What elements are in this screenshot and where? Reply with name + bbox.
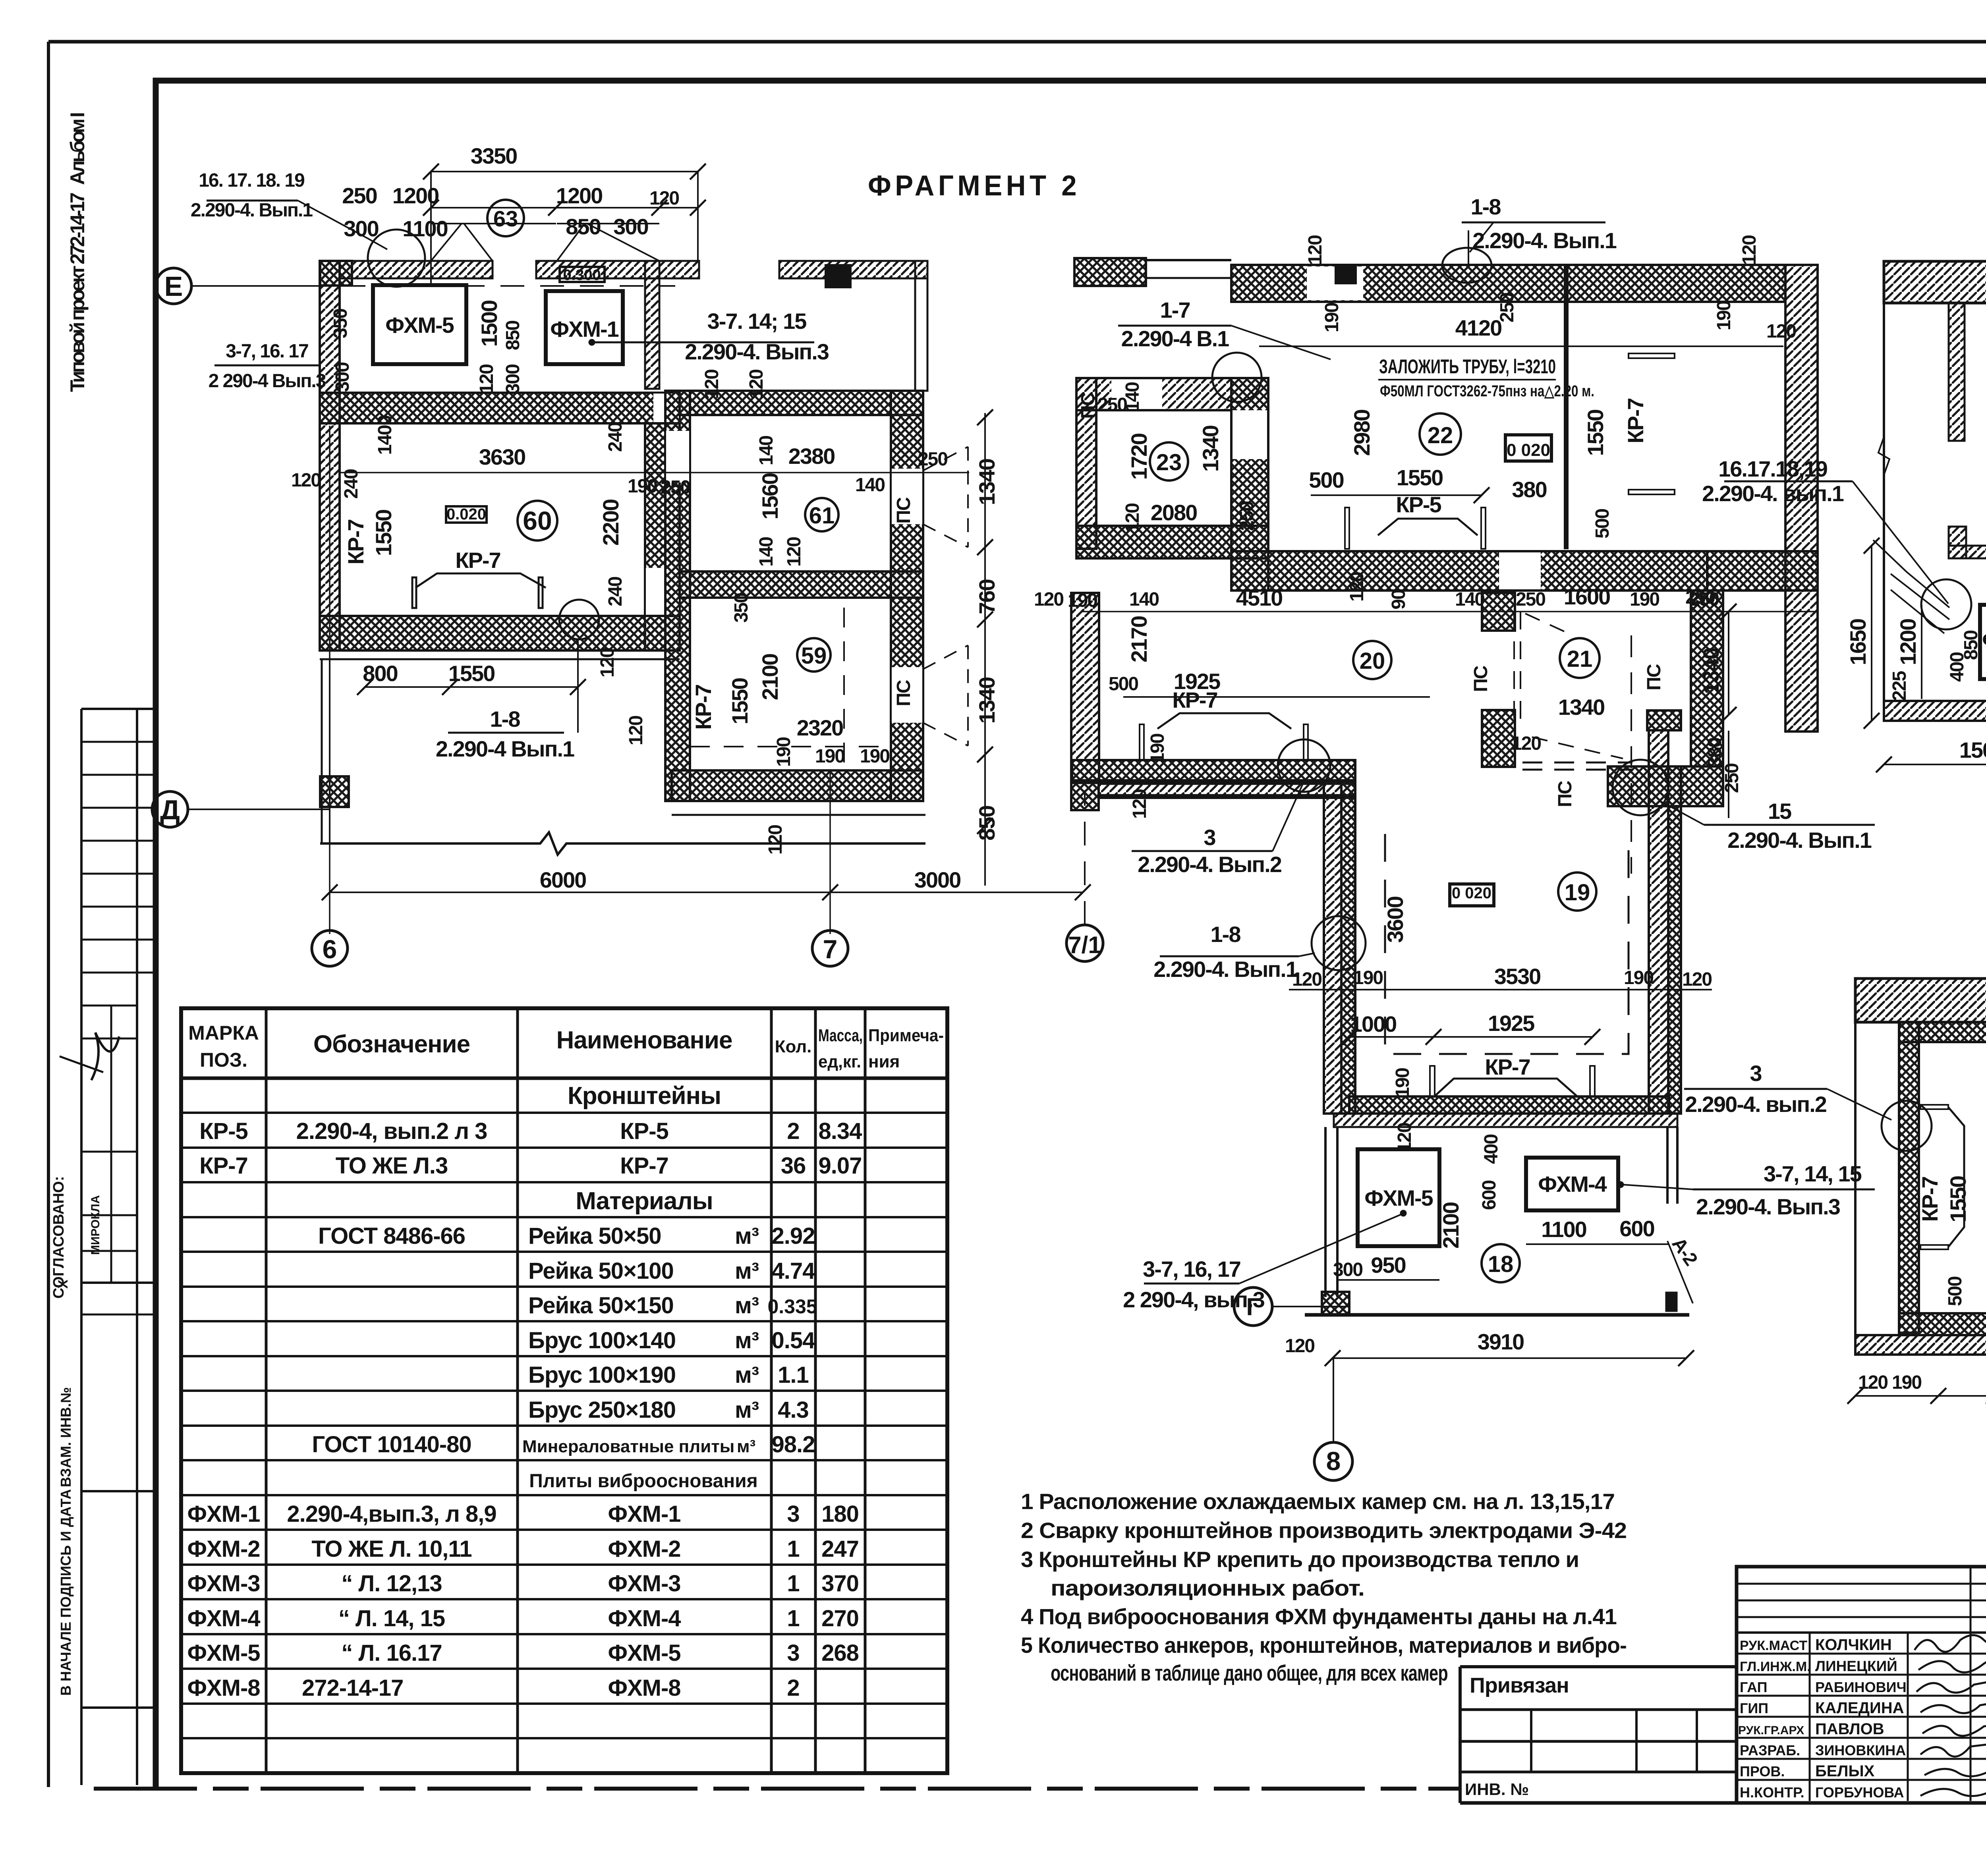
svg-text:3630: 3630 bbox=[479, 444, 525, 469]
svg-text:КР-5: КР-5 bbox=[1396, 492, 1441, 517]
svg-text:4.74: 4.74 bbox=[772, 1258, 815, 1284]
svg-text:КР-7: КР-7 bbox=[1485, 1054, 1530, 1079]
svg-text:4510: 4510 bbox=[1236, 585, 1283, 610]
svg-text:4120: 4120 bbox=[1455, 315, 1502, 340]
svg-text:Рейка 50×150: Рейка 50×150 bbox=[528, 1293, 674, 1318]
svg-text:22: 22 bbox=[1428, 423, 1453, 448]
svg-text:2.290-4,вып.3, л 8,9: 2.290-4,вып.3, л 8,9 bbox=[287, 1501, 496, 1527]
svg-text:140: 140 bbox=[756, 537, 777, 567]
svg-text:120: 120 bbox=[1739, 235, 1760, 265]
svg-text:120: 120 bbox=[1511, 733, 1541, 754]
svg-text:ПС: ПС bbox=[1644, 664, 1665, 691]
svg-text:1550: 1550 bbox=[448, 661, 495, 686]
svg-text:ПОЗ.: ПОЗ. bbox=[200, 1049, 247, 1071]
svg-text:500: 500 bbox=[1309, 467, 1343, 492]
svg-text:1500: 1500 bbox=[477, 301, 502, 347]
svg-text:1200: 1200 bbox=[556, 183, 603, 208]
svg-text:КР-7: КР-7 bbox=[1917, 1177, 1942, 1222]
svg-text:120: 120 bbox=[476, 365, 497, 394]
svg-text:3-7, 16. 17: 3-7, 16. 17 bbox=[226, 341, 308, 362]
svg-text:850: 850 bbox=[1961, 631, 1982, 660]
svg-text:370: 370 bbox=[821, 1571, 859, 1596]
svg-text:1100: 1100 bbox=[402, 216, 448, 241]
svg-text:3000: 3000 bbox=[914, 867, 961, 892]
svg-text:250: 250 bbox=[1721, 764, 1743, 793]
svg-text:КР-7: КР-7 bbox=[1623, 398, 1648, 443]
svg-text:ГАП: ГАП bbox=[1740, 1679, 1768, 1695]
svg-text:350: 350 bbox=[330, 309, 351, 338]
svg-text:3 Кронштейны КР крепить до п: 3 Кронштейны КР крепить до производства … bbox=[1021, 1547, 1579, 1572]
svg-text:Минераловатные плиты: Минераловатные плиты bbox=[522, 1437, 734, 1456]
svg-text:1340: 1340 bbox=[974, 459, 999, 506]
svg-text:500: 500 bbox=[1945, 1277, 1966, 1306]
svg-text:2980: 2980 bbox=[1983, 1137, 1986, 1183]
svg-text:300: 300 bbox=[613, 214, 648, 239]
svg-text:ГИП: ГИП bbox=[1740, 1700, 1768, 1716]
svg-text:190: 190 bbox=[1068, 590, 1097, 611]
svg-text:500: 500 bbox=[1109, 674, 1138, 695]
svg-text:м³: м³ bbox=[735, 1293, 759, 1318]
svg-text:1: 1 bbox=[787, 1571, 799, 1596]
svg-text:2 Сварку кронштейнов производ: 2 Сварку кронштейнов производить электро… bbox=[1021, 1518, 1627, 1543]
svg-text:4.3: 4.3 bbox=[778, 1397, 809, 1423]
svg-text:2.290-4. вып.2: 2.290-4. вып.2 bbox=[1685, 1092, 1826, 1117]
svg-text:850: 850 bbox=[566, 214, 600, 239]
svg-text:190: 190 bbox=[1624, 967, 1653, 988]
svg-text:3-7, 14, 15: 3-7, 14, 15 bbox=[1764, 1161, 1862, 1186]
svg-text:“ Л. 16.17: “ Л. 16.17 bbox=[341, 1640, 442, 1666]
svg-text:23: 23 bbox=[1156, 450, 1182, 475]
svg-text:1340: 1340 bbox=[1698, 648, 1723, 695]
svg-text:800: 800 bbox=[363, 661, 397, 686]
svg-text:4 Под виброоснования ФХМ фун: 4 Под виброоснования ФХМ фундаменты даны… bbox=[1021, 1604, 1617, 1629]
svg-text:2100: 2100 bbox=[1438, 1202, 1463, 1249]
svg-text:120: 120 bbox=[1394, 1123, 1415, 1152]
svg-text:1000: 1000 bbox=[1350, 1011, 1397, 1036]
svg-text:1: 1 bbox=[787, 1606, 799, 1631]
svg-text:ФХМ-8: ФХМ-8 bbox=[608, 1675, 680, 1701]
svg-text:2: 2 bbox=[787, 1675, 799, 1701]
svg-text:120: 120 bbox=[1682, 969, 1712, 990]
svg-text:21: 21 bbox=[1567, 646, 1593, 672]
svg-text:2100: 2100 bbox=[757, 654, 782, 701]
svg-text:1550: 1550 bbox=[1583, 410, 1608, 456]
svg-text:ФХМ-4: ФХМ-4 bbox=[608, 1606, 681, 1631]
svg-text:9.07: 9.07 bbox=[819, 1153, 862, 1179]
svg-text:1-7: 1-7 bbox=[1160, 297, 1190, 322]
svg-text:190: 190 bbox=[1321, 303, 1343, 332]
svg-text:190: 190 bbox=[860, 746, 889, 767]
svg-text:Привязан: Привязан bbox=[1470, 1673, 1569, 1697]
svg-text:Е: Е bbox=[164, 271, 183, 302]
svg-text:19: 19 bbox=[1565, 880, 1590, 905]
svg-text:250: 250 bbox=[342, 183, 377, 208]
svg-text:1720: 1720 bbox=[1126, 434, 1151, 480]
svg-text:950: 950 bbox=[1371, 1253, 1405, 1278]
svg-text:190: 190 bbox=[1714, 301, 1735, 330]
svg-text:3: 3 bbox=[1750, 1061, 1762, 1086]
svg-text:120: 120 bbox=[701, 370, 723, 399]
svg-text:190: 190 bbox=[1392, 1068, 1413, 1098]
svg-text:Примеча-: Примеча- bbox=[868, 1026, 944, 1045]
svg-text:ИНВ. №: ИНВ. № bbox=[1465, 1780, 1529, 1799]
svg-text:РУК.МАСТ: РУК.МАСТ bbox=[1740, 1638, 1807, 1653]
svg-text:120: 120 bbox=[765, 825, 786, 855]
svg-text:ед,кг.: ед,кг. bbox=[818, 1052, 861, 1071]
svg-text:140: 140 bbox=[1455, 589, 1484, 610]
svg-text:90: 90 bbox=[1388, 590, 1409, 610]
svg-text:ФХМ-5: ФХМ-5 bbox=[187, 1640, 260, 1666]
svg-text:0.020: 0.020 bbox=[446, 506, 486, 523]
svg-text:36: 36 bbox=[781, 1153, 806, 1179]
svg-text:225: 225 bbox=[1889, 671, 1910, 701]
svg-text:190: 190 bbox=[773, 737, 794, 767]
svg-text:250: 250 bbox=[918, 449, 947, 470]
svg-text:300: 300 bbox=[332, 363, 353, 392]
svg-text:2: 2 bbox=[787, 1118, 799, 1144]
svg-text:5 Количество анкеров, кроншт: 5 Количество анкеров, кронштейнов, матер… bbox=[1021, 1633, 1627, 1658]
svg-text:КР-7: КР-7 bbox=[343, 519, 368, 564]
svg-text:270: 270 bbox=[821, 1606, 859, 1631]
svg-text:140: 140 bbox=[855, 475, 885, 496]
svg-text:Ф50МЛ ГОСТ3262-75пнз на△2.20 м: Ф50МЛ ГОСТ3262-75пнз на△2.20 м. bbox=[1380, 382, 1594, 400]
svg-text:КР-7: КР-7 bbox=[1172, 687, 1217, 712]
svg-text:0 020: 0 020 bbox=[1507, 440, 1550, 460]
svg-text:15: 15 bbox=[1768, 799, 1791, 824]
svg-text:ЗИНОВКИНА: ЗИНОВКИНА bbox=[1815, 1742, 1906, 1758]
svg-text:1200: 1200 bbox=[392, 183, 439, 208]
svg-text:190: 190 bbox=[815, 746, 844, 767]
svg-text:1-8: 1-8 bbox=[1471, 194, 1501, 219]
svg-text:250: 250 bbox=[1236, 502, 1258, 531]
svg-text:ния: ния bbox=[868, 1052, 900, 1071]
svg-text:Рейка 50×50: Рейка 50×50 bbox=[528, 1223, 661, 1249]
svg-text:1-8: 1-8 bbox=[1211, 922, 1241, 947]
svg-text:м³: м³ bbox=[735, 1397, 759, 1423]
svg-text:ФХМ-2: ФХМ-2 bbox=[187, 1536, 260, 1562]
svg-text:Наименование: Наименование bbox=[556, 1027, 732, 1054]
svg-text:ФХМ-5: ФХМ-5 bbox=[1364, 1185, 1433, 1210]
svg-text:2.290-4 В.1: 2.290-4 В.1 bbox=[1121, 326, 1229, 351]
svg-text:240: 240 bbox=[605, 577, 626, 606]
svg-text:600: 600 bbox=[1479, 1181, 1500, 1210]
svg-text:600: 600 bbox=[1619, 1216, 1654, 1241]
svg-text:2380: 2380 bbox=[788, 444, 835, 469]
svg-text:250: 250 bbox=[661, 477, 690, 498]
svg-text:59: 59 bbox=[801, 643, 827, 669]
svg-text:м³: м³ bbox=[735, 1328, 759, 1353]
svg-text:ФХМ-2: ФХМ-2 bbox=[608, 1536, 680, 1562]
svg-text:Брус 250×180: Брус 250×180 bbox=[528, 1397, 676, 1423]
svg-text:А-2: А-2 bbox=[1668, 1234, 1702, 1269]
svg-text:2.92: 2.92 bbox=[772, 1223, 815, 1249]
svg-text:190: 190 bbox=[1353, 967, 1383, 988]
svg-text:240: 240 bbox=[341, 469, 362, 499]
svg-text:1560: 1560 bbox=[757, 473, 782, 520]
svg-text:380: 380 bbox=[1512, 477, 1546, 502]
svg-text:120: 120 bbox=[626, 716, 647, 745]
svg-text:18: 18 bbox=[1488, 1251, 1514, 1277]
svg-text:ЛИНЕЦКИЙ: ЛИНЕЦКИЙ bbox=[1815, 1658, 1897, 1674]
svg-text:120: 120 bbox=[1347, 572, 1368, 602]
svg-text:400: 400 bbox=[1481, 1135, 1502, 1164]
svg-text:МИРОКЛА: МИРОКЛА bbox=[89, 1195, 102, 1255]
svg-text:ПАВЛОВ: ПАВЛОВ bbox=[1815, 1720, 1884, 1738]
svg-text:Материалы: Материалы bbox=[576, 1187, 713, 1215]
svg-text:МАРКА: МАРКА bbox=[188, 1022, 259, 1044]
svg-text:2170: 2170 bbox=[1126, 616, 1151, 663]
svg-text:61: 61 bbox=[809, 503, 835, 529]
svg-text:300: 300 bbox=[344, 216, 378, 241]
svg-text:850: 850 bbox=[974, 806, 999, 840]
svg-text:ФХМ-3: ФХМ-3 bbox=[608, 1571, 680, 1596]
svg-text:120: 120 bbox=[291, 470, 321, 491]
svg-text:ПС: ПС bbox=[1078, 392, 1099, 419]
svg-text:ПС: ПС bbox=[1555, 781, 1576, 807]
svg-text:190: 190 bbox=[1147, 734, 1168, 763]
svg-text:ФХМ-3: ФХМ-3 bbox=[187, 1571, 260, 1596]
svg-text:м³: м³ bbox=[737, 1437, 755, 1456]
svg-text:ТО ЖЕ Л. 10,11: ТО ЖЕ Л. 10,11 bbox=[311, 1536, 471, 1562]
svg-text:2.290-4. Вып.3: 2.290-4. Вып.3 bbox=[1696, 1194, 1840, 1219]
svg-text:2.290-4. Вып.1: 2.290-4. Вып.1 bbox=[1153, 957, 1298, 982]
svg-text:ЗАЛОЖИТЬ ТРУБУ, l=3210: ЗАЛОЖИТЬ ТРУБУ, l=3210 bbox=[1379, 355, 1556, 378]
svg-text:3: 3 bbox=[787, 1501, 799, 1527]
svg-text:120: 120 bbox=[1285, 1336, 1314, 1357]
svg-text:6: 6 bbox=[323, 934, 337, 964]
svg-text:190: 190 bbox=[1984, 1045, 1986, 1074]
svg-text:2.290-4. вып.1: 2.290-4. вып.1 bbox=[1702, 481, 1844, 506]
svg-text:63: 63 bbox=[493, 206, 518, 231]
svg-text:760: 760 bbox=[974, 579, 999, 614]
svg-text:0.300: 0.300 bbox=[563, 267, 601, 284]
svg-text:1550: 1550 bbox=[371, 510, 396, 556]
svg-text:Д: Д bbox=[160, 794, 180, 825]
svg-text:3910: 3910 bbox=[1478, 1329, 1524, 1354]
svg-text:2 290-4, вып.3: 2 290-4, вып.3 bbox=[1123, 1287, 1265, 1312]
svg-text:3600: 3600 bbox=[1383, 897, 1408, 943]
svg-text:2.290-4. Вып.1: 2.290-4. Вып.1 bbox=[1472, 228, 1617, 253]
svg-text:380: 380 bbox=[1704, 738, 1725, 767]
svg-text:2.290-4. Вып.1: 2.290-4. Вып.1 bbox=[1727, 828, 1872, 853]
svg-text:120: 120 bbox=[1034, 589, 1063, 610]
svg-text:1600: 1600 bbox=[1564, 584, 1610, 609]
svg-text:190: 190 bbox=[1630, 589, 1659, 610]
svg-text:ФХМ-1: ФХМ-1 bbox=[1982, 627, 1986, 652]
svg-text:300: 300 bbox=[1333, 1259, 1362, 1280]
svg-text:ФХМ-4: ФХМ-4 bbox=[187, 1606, 260, 1631]
svg-text:1500: 1500 bbox=[1959, 737, 1986, 762]
svg-text:Брус 100×140: Брус 100×140 bbox=[528, 1328, 676, 1353]
svg-text:120: 120 bbox=[1305, 235, 1326, 265]
svg-text:268: 268 bbox=[821, 1640, 859, 1666]
svg-text:16.17.18,19: 16.17.18,19 bbox=[1718, 456, 1828, 481]
svg-text:3530: 3530 bbox=[1494, 964, 1541, 989]
svg-text:16. 17. 18. 19: 16. 17. 18. 19 bbox=[199, 170, 304, 191]
svg-text:180: 180 bbox=[821, 1501, 859, 1527]
svg-text:РАБИНОВИЧ: РАБИНОВИЧ bbox=[1815, 1679, 1907, 1695]
svg-text:140: 140 bbox=[756, 436, 777, 465]
svg-text:240: 240 bbox=[605, 423, 626, 452]
svg-text:РУК.ГР.АРХ: РУК.ГР.АРХ bbox=[1738, 1724, 1804, 1737]
svg-text:120: 120 bbox=[597, 648, 618, 677]
svg-text:РАЗРАБ.: РАЗРАБ. bbox=[1740, 1742, 1800, 1758]
svg-text:1 Расположение охлаждаемых ка: 1 Расположение охлаждаемых камер см. на … bbox=[1021, 1489, 1615, 1514]
svg-text:1340: 1340 bbox=[1558, 695, 1605, 720]
svg-text:2200: 2200 bbox=[598, 500, 623, 546]
svg-text:ФХМ-8: ФХМ-8 bbox=[187, 1675, 260, 1701]
svg-text:3: 3 bbox=[787, 1640, 799, 1666]
svg-text:Масса,: Масса, bbox=[818, 1026, 863, 1045]
svg-text:1-8: 1-8 bbox=[490, 706, 520, 731]
svg-text:0.335: 0.335 bbox=[767, 1295, 817, 1318]
svg-text:98.2: 98.2 bbox=[772, 1432, 815, 1457]
svg-text:“ Л. 14, 15: “ Л. 14, 15 bbox=[338, 1606, 445, 1631]
svg-text:120: 120 bbox=[1292, 969, 1321, 990]
svg-text:ФХМ-5: ФХМ-5 bbox=[608, 1640, 680, 1666]
svg-text:ПС: ПС bbox=[1470, 666, 1491, 692]
svg-text:120: 120 bbox=[1766, 321, 1796, 342]
svg-text:1550: 1550 bbox=[1397, 465, 1443, 490]
svg-text:КР-5: КР-5 bbox=[199, 1118, 248, 1144]
svg-text:1400: 1400 bbox=[375, 415, 396, 455]
svg-text:1650: 1650 bbox=[1845, 619, 1870, 666]
svg-text:3-7. 14; 15: 3-7. 14; 15 bbox=[707, 309, 807, 334]
svg-text:ФХМ-4: ФХМ-4 bbox=[1538, 1172, 1607, 1197]
svg-text:Кол.: Кол. bbox=[775, 1037, 812, 1056]
svg-text:1340: 1340 bbox=[974, 677, 999, 724]
svg-text:м³: м³ bbox=[735, 1258, 759, 1284]
svg-text:8.34: 8.34 bbox=[819, 1118, 862, 1144]
svg-text:ПС: ПС bbox=[893, 680, 914, 706]
svg-text:1550: 1550 bbox=[1945, 1176, 1971, 1223]
svg-text:120: 120 bbox=[746, 370, 767, 399]
svg-text:1.1: 1.1 bbox=[778, 1362, 809, 1388]
svg-text:1200: 1200 bbox=[1895, 619, 1920, 666]
svg-text:Обозначение: Обозначение bbox=[313, 1031, 470, 1058]
svg-text:КР-5: КР-5 bbox=[620, 1118, 668, 1144]
svg-text:Рейка 50×100: Рейка 50×100 bbox=[528, 1258, 674, 1284]
svg-text:1550: 1550 bbox=[727, 678, 752, 725]
svg-text:оснований в таблице дано обще: оснований в таблице дано общее, для всех… bbox=[1051, 1660, 1448, 1685]
svg-text:ГЛ.ИНЖ.М.: ГЛ.ИНЖ.М. bbox=[1740, 1659, 1811, 1674]
svg-text:20: 20 bbox=[1360, 648, 1385, 674]
svg-text:1: 1 bbox=[787, 1536, 799, 1562]
svg-text:ФХМ-1: ФХМ-1 bbox=[187, 1501, 260, 1527]
svg-text:2980: 2980 bbox=[1349, 410, 1374, 456]
svg-text:350: 350 bbox=[731, 593, 752, 623]
svg-text:190: 190 bbox=[628, 476, 657, 497]
svg-text:ГОСТ 8486-66: ГОСТ 8486-66 bbox=[318, 1223, 465, 1249]
svg-text:120: 120 bbox=[784, 537, 805, 567]
svg-text:8: 8 bbox=[1326, 1446, 1341, 1476]
svg-text:2.290-4. Вып.1: 2.290-4. Вып.1 bbox=[191, 200, 313, 221]
svg-text:3350: 3350 bbox=[471, 143, 517, 168]
svg-text:1100: 1100 bbox=[1541, 1217, 1586, 1242]
svg-text:пароизоляционных работ.: пароизоляционных работ. bbox=[1051, 1575, 1364, 1600]
svg-text:м³: м³ bbox=[735, 1362, 759, 1388]
svg-text:КР-7: КР-7 bbox=[455, 548, 500, 573]
svg-text:0 020: 0 020 bbox=[1452, 884, 1491, 902]
svg-text:ФХМ-1: ФХМ-1 bbox=[608, 1501, 680, 1527]
svg-text:ГОРБУНОВА: ГОРБУНОВА bbox=[1815, 1784, 1904, 1801]
svg-text:60: 60 bbox=[523, 506, 552, 535]
svg-text:120: 120 bbox=[1858, 1372, 1887, 1393]
svg-text:КР-7: КР-7 bbox=[199, 1153, 248, 1179]
svg-text:Плиты виброоснования: Плиты виброоснования bbox=[529, 1471, 757, 1492]
svg-text:0.54: 0.54 bbox=[772, 1328, 815, 1353]
svg-text:3: 3 bbox=[1204, 825, 1215, 850]
svg-text:250: 250 bbox=[1516, 589, 1545, 610]
svg-text:3-7, 16, 17: 3-7, 16, 17 bbox=[1143, 1256, 1240, 1282]
svg-text:ВЗАМ. ИНВ.№: ВЗАМ. ИНВ.№ bbox=[58, 1387, 74, 1487]
svg-text:247: 247 bbox=[821, 1536, 859, 1562]
svg-text:ПС: ПС bbox=[893, 497, 914, 524]
svg-text:850: 850 bbox=[502, 321, 524, 350]
svg-text:ГОСТ 10140-80: ГОСТ 10140-80 bbox=[312, 1432, 471, 1457]
svg-text:БЕЛЫХ: БЕЛЫХ bbox=[1815, 1762, 1875, 1780]
svg-text:Брус 100×190: Брус 100×190 bbox=[528, 1362, 676, 1388]
svg-text:120: 120 bbox=[649, 188, 679, 209]
svg-text:м³: м³ bbox=[735, 1223, 759, 1249]
svg-text:Н.КОНТР.: Н.КОНТР. bbox=[1740, 1784, 1804, 1801]
svg-text:В НАЧАЛЕ ПОДПИСЬ И ДАТА: В НАЧАЛЕ ПОДПИСЬ И ДАТА bbox=[58, 1489, 74, 1696]
svg-text:“ Л. 12,13: “ Л. 12,13 bbox=[341, 1571, 442, 1596]
svg-text:КР-7: КР-7 bbox=[691, 685, 716, 730]
svg-text:7/1: 7/1 bbox=[1068, 932, 1101, 958]
svg-text:6000: 6000 bbox=[540, 867, 586, 892]
svg-text:2080: 2080 bbox=[1151, 500, 1197, 525]
svg-text:190: 190 bbox=[1984, 1281, 1986, 1310]
svg-text:ПРОВ.: ПРОВ. bbox=[1740, 1763, 1785, 1779]
svg-text:ФХМ-1: ФХМ-1 bbox=[550, 317, 618, 342]
svg-text:2.290-4. Вып.2: 2.290-4. Вып.2 bbox=[1138, 852, 1281, 877]
svg-text:190: 190 bbox=[1892, 1372, 1921, 1393]
svg-text:Кронштейны: Кронштейны bbox=[568, 1082, 721, 1110]
svg-text:ФХМ-5: ФХМ-5 bbox=[385, 313, 454, 338]
svg-text:2.290-4, вып.2 л 3: 2.290-4, вып.2 л 3 bbox=[296, 1118, 487, 1144]
svg-text:120: 120 bbox=[1129, 789, 1150, 819]
svg-text:300: 300 bbox=[502, 365, 524, 394]
svg-text:2320: 2320 bbox=[797, 715, 843, 740]
svg-text:250: 250 bbox=[1685, 587, 1715, 608]
svg-text:120: 120 bbox=[1122, 504, 1143, 533]
svg-text:X: X bbox=[56, 1280, 71, 1289]
svg-text:272-14-17: 272-14-17 bbox=[302, 1675, 403, 1701]
svg-text:2 290-4 Вып.3: 2 290-4 Вып.3 bbox=[209, 371, 326, 392]
svg-text:КОЛЧКИН: КОЛЧКИН bbox=[1815, 1636, 1892, 1654]
svg-text:7: 7 bbox=[823, 934, 838, 964]
svg-text:1340: 1340 bbox=[1198, 426, 1223, 472]
svg-text:ФРАГМЕНТ 2: ФРАГМЕНТ 2 bbox=[868, 170, 1080, 202]
svg-text:2.290-4. Вып.3: 2.290-4. Вып.3 bbox=[685, 339, 829, 364]
svg-text:КР-7: КР-7 bbox=[620, 1153, 668, 1179]
svg-text:2.290-4 Вып.1: 2.290-4 Вып.1 bbox=[436, 736, 574, 761]
svg-text:ТО ЖЕ Л.3: ТО ЖЕ Л.3 bbox=[336, 1153, 448, 1179]
svg-text:500: 500 bbox=[1592, 509, 1613, 538]
svg-text:1925: 1925 bbox=[1488, 1011, 1534, 1036]
svg-text:КАЛЕДИНА: КАЛЕДИНА bbox=[1815, 1699, 1904, 1717]
svg-text:140: 140 bbox=[1122, 382, 1143, 412]
svg-text:Типовой проект 272-14-17 Аль: Типовой проект 272-14-17 Альбом I bbox=[66, 112, 89, 392]
svg-text:140: 140 bbox=[1129, 589, 1159, 610]
